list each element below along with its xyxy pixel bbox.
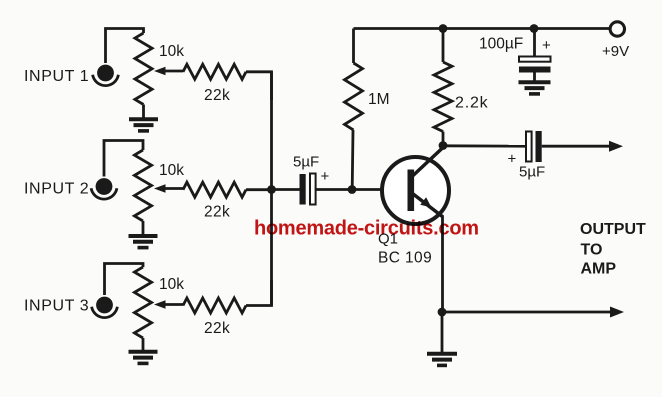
input jack J1 INPUT 1 (93, 65, 119, 86)
wire bus to C1 (272, 188, 300, 191)
svg-text:TO: TO (581, 242, 603, 259)
wire C1 to base of Q1 (316, 188, 408, 191)
svg-text:+: + (508, 151, 517, 168)
svg-text:INPUT 1: INPUT 1 (24, 68, 89, 85)
label OUTPUT TO AMP (580, 221, 646, 278)
ground pot1 (129, 119, 158, 131)
input jack J2 INPUT 2 (91, 178, 117, 199)
wire pot3 to ground (142, 338, 145, 351)
transistor Q1 BC109 (378, 148, 449, 267)
wire pot2 to ground (142, 221, 145, 235)
svg-text:AMP: AMP (581, 261, 617, 278)
junction rail / 2.2k (439, 24, 448, 33)
wire emitter down (441, 216, 444, 312)
wire jack J2 to pot top (104, 141, 143, 177)
wire emitter output arrow (442, 307, 624, 318)
svg-text:INPUT 3: INPUT 3 (24, 298, 89, 315)
wire jack J1 to pot top (106, 29, 144, 64)
svg-text:10k: 10k (159, 276, 184, 293)
svg-text:+: + (321, 168, 330, 185)
svg-text:10k: 10k (159, 43, 184, 60)
svg-text:22k: 22k (204, 87, 230, 104)
svg-text:22k: 22k (204, 204, 230, 221)
resistor R2 2.2k (434, 29, 489, 146)
wire 22k-2 to mix bus (246, 188, 272, 191)
svg-text:10k: 10k (159, 162, 184, 179)
ground pot3 (129, 352, 158, 364)
ground pot2 (129, 236, 158, 248)
svg-text:2.2k: 2.2k (455, 95, 489, 112)
svg-text:22k: 22k (204, 320, 230, 337)
svg-text:100µF: 100µF (479, 36, 523, 53)
wire collector to C2 (443, 144, 526, 147)
capacitor C3 100uF supply decoupling (479, 29, 551, 82)
junction 1M / base node (348, 185, 357, 194)
potentiometer 10k (input 3) (134, 267, 184, 338)
svg-text:+: + (542, 37, 551, 54)
wire pot1 to ground (142, 105, 145, 119)
capacitor C2 5uF output coupling (508, 131, 546, 181)
resistor R1 1M (345, 29, 390, 190)
svg-text:INPUT 2: INPUT 2 (24, 181, 89, 198)
svg-text:BC 109: BC 109 (378, 250, 432, 267)
svg-text:homemade-circuits.com: homemade-circuits.com (254, 218, 479, 240)
resistor 22k (input 1) (183, 64, 246, 104)
resistor 22k (input 2) (183, 182, 246, 220)
ground emitter (427, 354, 457, 366)
potentiometer 10k (input 1) (135, 33, 184, 105)
potentiometer 10k (input 2) (134, 150, 184, 221)
junction collector node (439, 141, 448, 150)
terminal +9V (602, 22, 629, 60)
svg-text:+9V: +9V (602, 43, 629, 60)
capacitor C1 5uF input coupling (293, 154, 330, 205)
wire C2 to output arrow (542, 141, 623, 152)
svg-text:5µF: 5µF (519, 164, 545, 181)
wire mixing bus vertical (270, 72, 273, 306)
wire 22k-3 to mix bus (246, 280, 272, 306)
input jack J3 INPUT 3 (92, 297, 118, 318)
junction bus / coupling cap node (267, 185, 276, 194)
junction emitter node (438, 308, 447, 317)
svg-text:1M: 1M (368, 91, 390, 108)
wire +9V supply rail (354, 27, 611, 30)
svg-text:OUTPUT: OUTPUT (580, 221, 646, 238)
junction rail / 100uF (530, 24, 539, 33)
ground 100uF (519, 82, 551, 94)
wire 22k-1 to mix bus (246, 72, 272, 100)
wire emitter to ground (441, 312, 444, 352)
svg-text:5µF: 5µF (293, 154, 319, 171)
wire jack J3 to pot top (105, 264, 144, 296)
resistor 22k (input 3) (183, 298, 246, 337)
